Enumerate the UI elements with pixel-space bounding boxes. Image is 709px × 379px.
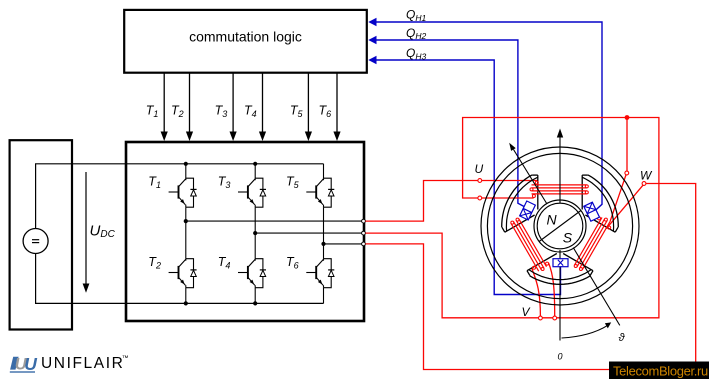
pole shoe band across upper-left slot: [502, 175, 538, 231]
svg-text:T6: T6: [286, 255, 299, 271]
uniflair logo mark: [10, 354, 38, 374]
wire gate drive T3: [230, 74, 237, 142]
transistor T1: [169, 178, 186, 207]
junction phase V top: [625, 115, 630, 120]
wire gate drive T2: [186, 74, 193, 142]
svg-text:U: U: [475, 162, 484, 176]
diode D5 antiparallel: [324, 178, 335, 207]
junction bottom rail: [253, 301, 257, 305]
wire phase output 2 (inside inverter): [255, 232, 361, 234]
svg-text:0: 0: [558, 351, 563, 361]
transistor T2: [169, 259, 186, 288]
dc voltage source symbol: [23, 229, 48, 254]
wire top rail: [127, 163, 324, 165]
diode D6 antiparallel: [324, 259, 335, 288]
terminal phase 2: [362, 231, 366, 235]
wire inverter leg 2: [254, 164, 256, 178]
wire gate drive T4: [259, 74, 266, 142]
terminal winding right upper: [625, 171, 629, 175]
wire phase V to motor: [365, 118, 659, 318]
svg-text:™: ™: [122, 355, 129, 362]
stator pole P1 top: [532, 175, 588, 209]
svg-text:T4: T4: [218, 255, 231, 271]
wire gate drive T6: [333, 74, 340, 142]
winding W (bottom-right pole): [574, 217, 611, 271]
motor stator inner circle: [487, 153, 632, 298]
wire V winding feed upper: [482, 197, 534, 199]
wire gate drive T1: [161, 74, 168, 142]
transistor T4: [238, 259, 255, 288]
wire junction to winding W side: [626, 118, 628, 172]
rotor inner circle: [537, 203, 583, 249]
commutation logic block: [124, 10, 367, 73]
telecombloger watermark: [609, 362, 709, 379]
winding U (top pole): [530, 181, 588, 197]
wire V winding lead left: [532, 268, 541, 316]
terminal V lead left: [539, 316, 543, 320]
diode D3 antiparallel: [255, 178, 266, 207]
wire inverter leg 1: [185, 164, 187, 178]
stator pole P3 bottom-left: [502, 215, 557, 276]
label UDC with arrow: [83, 172, 116, 293]
svg-text:T1: T1: [148, 175, 161, 191]
wire bottom rail: [127, 302, 324, 304]
wire winding right upper lead: [610, 175, 626, 222]
rotor angle reference line (0 axis): [559, 250, 561, 341]
wire V winding lead right: [549, 263, 555, 316]
junction leg 1 output tap: [184, 219, 188, 223]
svg-text:QH2: QH2: [406, 26, 426, 41]
pole shoe band across bottom slot: [529, 270, 591, 285]
svg-text:T5: T5: [290, 104, 304, 120]
hall sensor H3: [553, 259, 568, 267]
wire phase output 3 (inside inverter): [324, 243, 362, 245]
svg-text:N: N: [547, 211, 558, 227]
svg-text:T6: T6: [319, 104, 332, 120]
junction top rail: [184, 162, 188, 166]
wire phase output 1 (inside inverter): [186, 220, 362, 222]
svg-text:T3: T3: [218, 175, 231, 191]
terminal U: [478, 179, 482, 183]
inverter bridge box: [126, 142, 364, 321]
junction bottom rail: [184, 301, 188, 305]
junction leg 3 output tap: [321, 242, 325, 246]
rotor magnet divider: [539, 211, 581, 242]
svg-text:T2: T2: [148, 255, 161, 271]
svg-text:QH3: QH3: [406, 46, 426, 61]
dc source box: [10, 140, 72, 329]
svg-text:ϑ: ϑ: [619, 332, 626, 344]
svg-text:T4: T4: [244, 104, 257, 120]
wire W winding lead: [606, 185, 643, 228]
wire gate drive T5: [305, 74, 312, 142]
winding V (bottom-left pole): [511, 218, 549, 271]
svg-text:commutation logic: commutation logic: [189, 29, 302, 45]
svg-text:U: U: [24, 354, 37, 374]
wire QH2 (hall sensor 2 signal): [368, 36, 524, 207]
stator axis arrow (vertical): [557, 129, 563, 204]
svg-text:T2: T2: [171, 104, 184, 120]
svg-text:W: W: [640, 169, 653, 183]
transistor T3: [238, 178, 255, 207]
transistor T6: [306, 259, 323, 288]
motor stator outer circle: [481, 147, 639, 305]
svg-text:V: V: [522, 305, 531, 319]
diode D2 antiparallel: [186, 259, 197, 288]
wire QH1 (hall sensor 1 signal): [368, 18, 602, 210]
svg-text:QH1: QH1: [406, 8, 426, 23]
svg-text:T1: T1: [146, 104, 159, 120]
rotor magnet axis with arrow: [509, 143, 620, 326]
wire phase U to motor: [365, 181, 478, 222]
wire inverter leg 3: [323, 164, 325, 178]
wire dc negative rail: [36, 254, 126, 304]
wire QH3 (hall sensor 3 signal): [368, 56, 560, 295]
hall sensor H2: [520, 201, 536, 220]
diode D1 antiparallel: [186, 178, 197, 207]
svg-text:UNIFLAIR: UNIFLAIR: [41, 355, 124, 372]
svg-text:T5: T5: [286, 175, 300, 191]
stator pole P2 bottom-right: [563, 215, 618, 276]
svg-text:UDC: UDC: [90, 222, 116, 240]
junction top rail: [253, 162, 257, 166]
wire dc positive rail: [36, 164, 126, 229]
terminal V lead right: [553, 316, 557, 320]
junction leg 2 output tap: [253, 231, 257, 235]
wire U winding feed: [482, 180, 538, 182]
wire phase W to motor: [365, 184, 695, 370]
terminal phase 3: [362, 242, 366, 246]
diode D4 antiparallel: [255, 259, 266, 288]
svg-text:T3: T3: [215, 104, 228, 120]
rotor outer circle: [534, 200, 586, 252]
hall sensor H1: [584, 202, 600, 221]
pole shoe band across upper-right slot: [582, 175, 618, 231]
terminal W: [642, 182, 646, 186]
terminal V winding upper: [478, 196, 482, 200]
rotor angle arc arrow: [562, 322, 612, 338]
transistor T5: [306, 178, 323, 207]
svg-text:S: S: [563, 229, 573, 245]
terminal phase 1: [362, 219, 366, 223]
svg-text:TelecomBloger.ru: TelecomBloger.ru: [613, 363, 708, 378]
